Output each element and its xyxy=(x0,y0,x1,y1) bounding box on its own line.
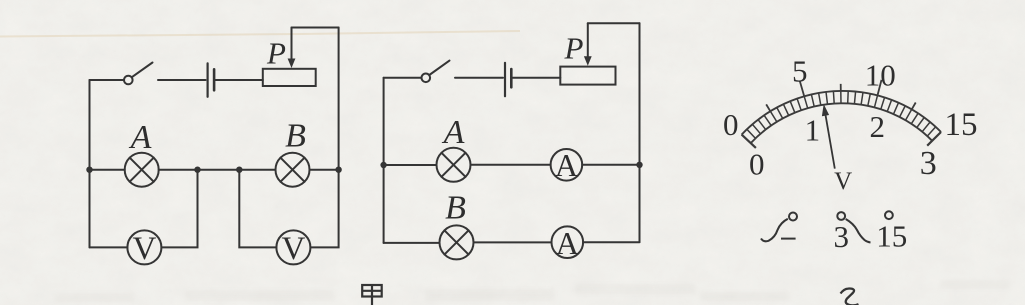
svg-text:A: A xyxy=(555,147,578,183)
switch S2 xyxy=(422,74,431,83)
faint bleed-through smudges xyxy=(55,280,1010,302)
rheostat P body xyxy=(560,67,615,85)
node dot right xyxy=(335,167,341,173)
svg-text:3: 3 xyxy=(834,219,850,254)
svg-text:5: 5 xyxy=(792,54,808,89)
wire: switch to battery xyxy=(158,79,206,81)
svg-text:15: 15 xyxy=(945,107,978,143)
wire: right rail xyxy=(338,28,340,170)
wire: right rail xyxy=(639,23,641,242)
ammeter A1 xyxy=(551,149,583,181)
svg-text:A: A xyxy=(556,225,579,261)
svg-text:3: 3 xyxy=(920,145,937,182)
meter scale minor division ticks xyxy=(747,91,936,138)
rheostat P slider arrow xyxy=(291,28,293,61)
terminal post 3 xyxy=(837,212,845,220)
wire: battery to rheostat xyxy=(513,77,561,79)
terminal post 15 xyxy=(885,211,893,219)
rheostat P slider arrow xyxy=(587,23,589,58)
lamp A xyxy=(125,153,159,187)
wire: left rail xyxy=(89,80,91,247)
voltmeter V2 xyxy=(276,230,310,264)
svg-text:2: 2 xyxy=(870,109,886,144)
ammeter A2 xyxy=(552,226,584,258)
wire: lamp A to lamp B xyxy=(159,169,276,171)
wire: bottom branch left xyxy=(384,242,440,244)
svg-text:15: 15 xyxy=(876,218,907,253)
svg-text:B: B xyxy=(445,190,466,227)
svg-text:B: B xyxy=(285,118,306,155)
wire: lamp A to ammeter A1 xyxy=(471,164,551,166)
svg-text:P: P xyxy=(564,31,584,66)
common terminal wire xyxy=(761,219,788,242)
caption jia (甲) xyxy=(362,284,382,305)
svg-text:0: 0 xyxy=(749,146,765,181)
svg-text:10: 10 xyxy=(865,57,896,92)
svg-text:V: V xyxy=(834,168,852,195)
node dot mid-left xyxy=(380,162,386,168)
meter scale end caps xyxy=(742,132,941,148)
wire: top left to switch xyxy=(384,77,422,79)
battery (cell) xyxy=(504,63,506,96)
wire: top branch left xyxy=(384,164,437,166)
node dot A-B left xyxy=(194,167,200,173)
meter scale band (arc) xyxy=(742,91,941,135)
wire: slider to top xyxy=(588,22,640,24)
node dot mid-right xyxy=(636,162,642,168)
wire: ammeter A2 to right rail xyxy=(583,241,639,243)
lamp A (middle) xyxy=(437,148,471,182)
switch S1 xyxy=(124,76,133,85)
node dot A-B right xyxy=(236,167,242,173)
voltmeter V1 xyxy=(127,230,161,264)
wire: slider to top xyxy=(292,27,339,29)
wire: main row left xyxy=(90,169,125,171)
wire: left rail xyxy=(383,78,385,243)
svg-text:A: A xyxy=(442,114,465,151)
wire: V2 right lead up to right rail xyxy=(310,170,338,248)
wire: ammeter A1 to right rail xyxy=(582,164,639,166)
faint scan streak xyxy=(0,31,520,37)
wire: V1 right lead up to node xyxy=(161,170,197,248)
terminal 3 wire xyxy=(846,219,871,243)
wire: node down to V2 left lead xyxy=(239,170,276,248)
lamp B xyxy=(276,153,310,187)
svg-text:A: A xyxy=(129,119,152,156)
lamp B (middle) xyxy=(440,225,474,259)
rheostat P body xyxy=(263,69,316,86)
wire: lamp B to right rail xyxy=(310,169,339,171)
wire: lamp B to ammeter A2 xyxy=(474,241,552,243)
wire: battery to rheostat xyxy=(216,79,263,81)
meter scale major ticks xyxy=(766,80,916,111)
svg-text:1: 1 xyxy=(805,113,821,148)
minus sign xyxy=(781,238,796,240)
wire: voltmeter V1 left lead xyxy=(90,246,128,248)
wire: top left to switch xyxy=(90,79,124,81)
svg-text:V: V xyxy=(132,231,156,267)
svg-text:0: 0 xyxy=(723,107,739,142)
battery (cell) xyxy=(207,63,209,96)
caption yi (乙) xyxy=(841,289,859,305)
needle xyxy=(825,112,835,169)
common terminal post xyxy=(789,213,797,221)
wire: switch to battery xyxy=(455,77,503,79)
svg-text:V: V xyxy=(281,231,305,267)
node dot left xyxy=(86,167,92,173)
svg-text:P: P xyxy=(266,36,286,71)
